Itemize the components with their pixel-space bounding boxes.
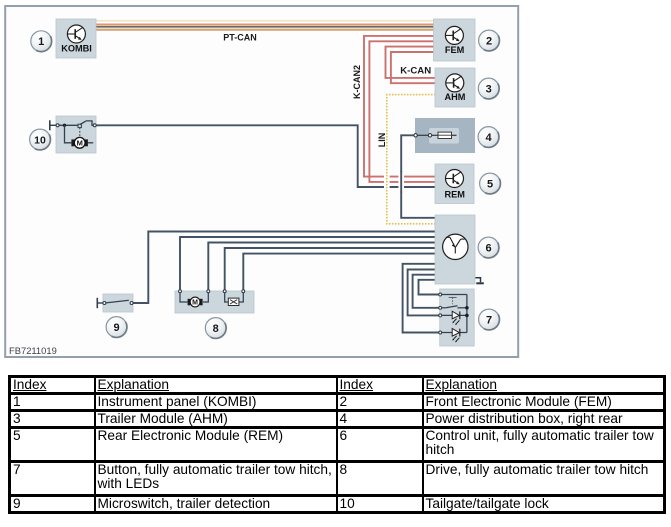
- tailgate lock box 10: [50, 116, 96, 153]
- drive motor M: [188, 299, 191, 306]
- wire drive M+ to control unit: [180, 237, 435, 290]
- svg-text:5: 5: [487, 179, 493, 191]
- svg-text:7: 7: [486, 315, 492, 327]
- wire drive sensor B to control unit: [243, 254, 435, 290]
- node 1: [31, 31, 52, 52]
- button with LEDs: [439, 289, 474, 346]
- fuse: [438, 132, 452, 138]
- svg-text:FB7211019: FB7211019: [9, 345, 57, 356]
- trailer module AHM: [435, 68, 475, 107]
- svg-text:LIN: LIN: [377, 133, 387, 148]
- diagram frame: [5, 6, 518, 357]
- drive unit box 8: [175, 290, 254, 313]
- wire PT-CAN bus: [96, 21, 434, 30]
- svg-text:2: 2: [486, 36, 492, 48]
- wire control unit to button pin3: [408, 270, 439, 316]
- wire LIN dotted: [387, 95, 436, 224]
- svg-text:PT-CAN: PT-CAN: [223, 33, 257, 43]
- LED 1: [452, 311, 460, 325]
- lock motor M: [71, 139, 74, 146]
- button connector pins: [439, 293, 442, 334]
- power distribution box: [414, 118, 475, 153]
- svg-text:1: 1: [38, 36, 44, 48]
- svg-text:REM: REM: [444, 189, 465, 199]
- wire control unit to button pin4: [403, 264, 439, 333]
- node 10: [30, 129, 51, 150]
- instrument panel KOMBI: [56, 19, 96, 58]
- svg-text:4: 4: [485, 132, 492, 144]
- svg-text:M: M: [77, 139, 83, 148]
- svg-text:10: 10: [34, 135, 46, 147]
- svg-text:M: M: [192, 300, 198, 307]
- wire microswitch to control unit: [133, 232, 435, 304]
- node 3: [478, 78, 499, 99]
- svg-text:9: 9: [113, 322, 119, 334]
- svg-text:AHM: AHM: [445, 92, 466, 102]
- control unit trailer tow hitch: [435, 215, 475, 284]
- wire control unit to button pin2: [413, 275, 439, 308]
- LIN crossing halo: [384, 172, 390, 192]
- svg-text:6: 6: [485, 243, 491, 255]
- node 7: [479, 309, 500, 330]
- drive sensor X: [228, 298, 239, 305]
- wire fuse to control unit: [401, 135, 435, 218]
- LED 2: [452, 329, 460, 343]
- svg-text:KOMBI: KOMBI: [61, 44, 92, 54]
- wire drive M- to control unit: [208, 243, 435, 290]
- svg-text:K-CAN: K-CAN: [400, 65, 431, 76]
- fuse wire crossing halo: [398, 171, 404, 193]
- front electronic module FEM: [434, 19, 476, 61]
- node 8: [205, 318, 226, 339]
- svg-text:K-CAN2: K-CAN2: [352, 65, 362, 99]
- node 2: [479, 30, 500, 51]
- node 5: [480, 173, 501, 194]
- wire control unit to button pin1: [419, 280, 439, 295]
- node 4: [478, 127, 499, 148]
- node 9: [106, 317, 127, 338]
- node 6: [478, 237, 499, 258]
- microswitch box 9: [97, 294, 133, 312]
- drive connector pins: [179, 290, 245, 293]
- svg-text:3: 3: [486, 84, 492, 96]
- legend table: [8, 375, 666, 514]
- wire drive sensor A to control unit: [225, 248, 435, 290]
- terminal mark at control unit: [475, 278, 484, 284]
- svg-text:FEM: FEM: [445, 45, 465, 55]
- rear electronic module REM: [435, 164, 474, 204]
- wire tailgate lock to REM: [96, 125, 435, 187]
- wire K-CAN2 pair: [364, 36, 435, 182]
- wire K-CAN pair: [386, 47, 436, 84]
- svg-text:8: 8: [213, 323, 219, 335]
